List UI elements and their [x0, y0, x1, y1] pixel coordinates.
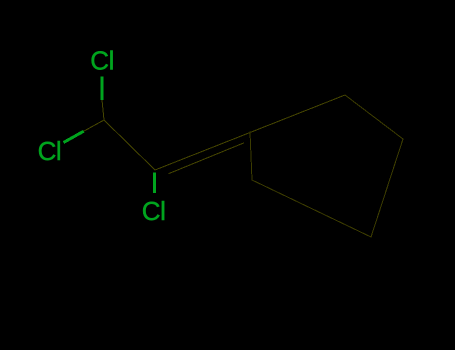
svg-text:Cl: Cl — [90, 46, 114, 76]
bond C7-C3 ring — [250, 132, 252, 180]
bond C5-C6 ring — [371, 139, 403, 237]
bond C1-Cl left (carbon half) — [84, 120, 104, 131]
bond C4-C5 ring — [345, 95, 403, 139]
bond C2=C3 inner line — [169, 143, 244, 174]
bond C2=C3 main line (through to C4) — [155, 95, 345, 170]
bond Cl bottom (green, full) — [153, 172, 156, 193]
svg-text:Cl: Cl — [142, 196, 166, 226]
bond C6-C7 ring — [252, 180, 371, 237]
bond Cl left (green half) — [64, 131, 84, 142]
svg-text:Cl: Cl — [38, 136, 62, 166]
bond C1-Cl top (carbon half) — [102, 100, 104, 120]
bond C1-C2 — [104, 120, 155, 170]
bond Cl top (green half) — [101, 77, 104, 101]
